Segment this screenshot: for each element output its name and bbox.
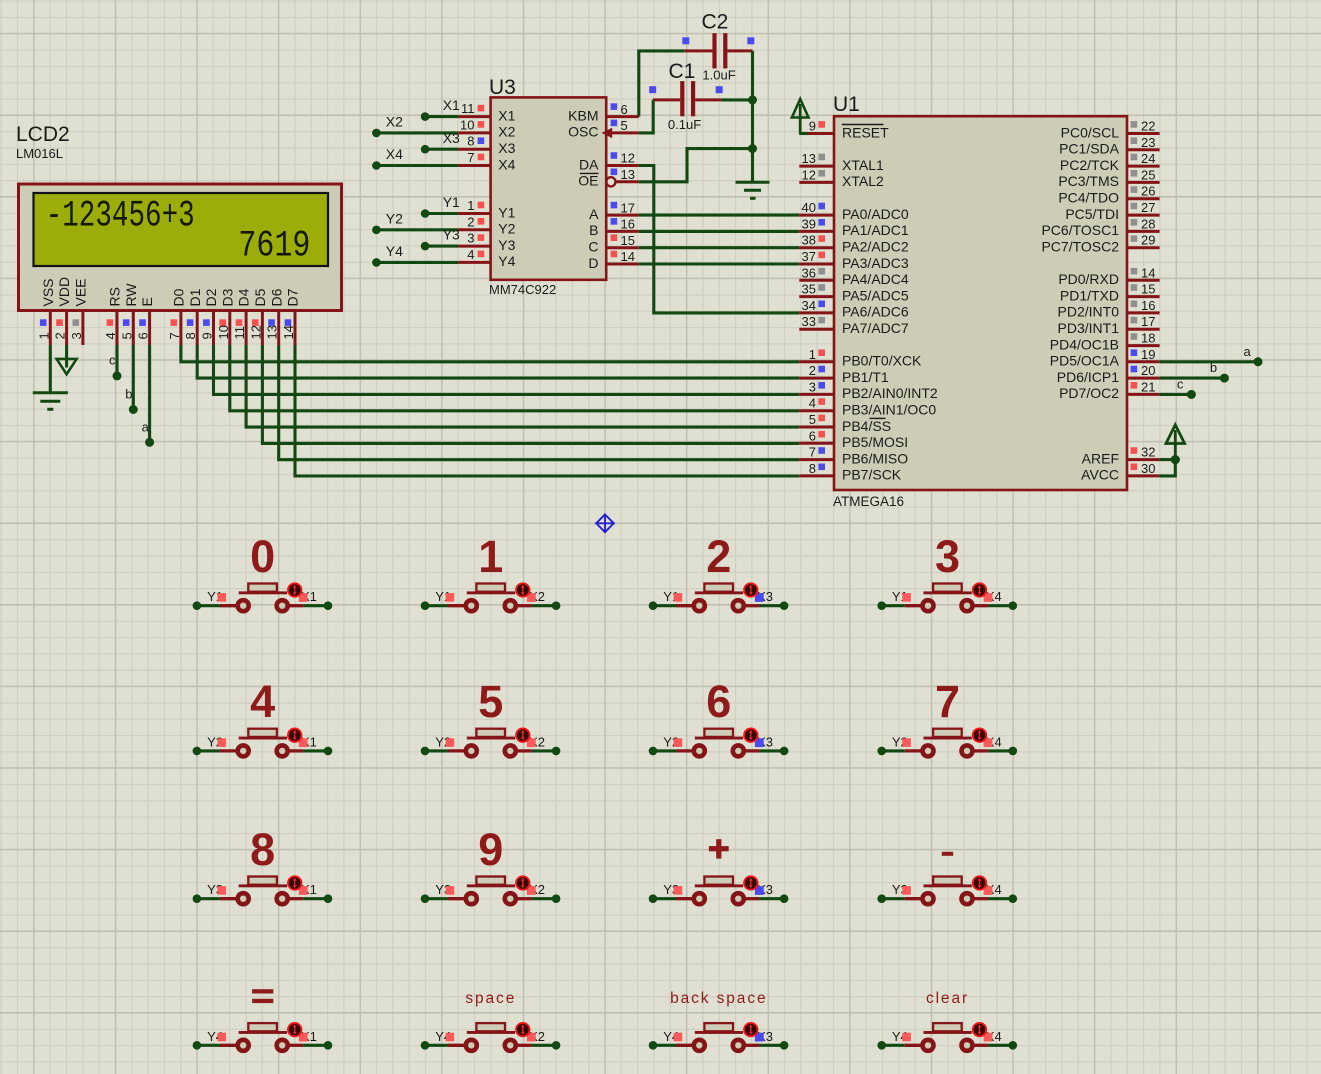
svg-text:33: 33 [802,314,816,329]
net X4 state square [984,593,993,602]
node X3 [780,1041,789,1050]
svg-text:c: c [109,353,116,368]
svg-text:clear: clear [926,990,969,1007]
net X1 state square [299,593,308,602]
button SW7 lever [695,737,743,740]
net Y2 state square [674,738,683,747]
svg-text:13: 13 [621,167,635,182]
svg-text:PD2/INT0: PD2/INT0 [1058,304,1120,320]
svg-text:PA6/ADC6: PA6/ADC6 [842,304,909,320]
svg-text:PD1/TXD: PD1/TXD [1060,287,1119,303]
wire D3 to PB3 [230,345,800,411]
svg-text:PA2/ADC2: PA2/ADC2 [842,239,909,255]
U1 pin 33 (PA7/ADC7) stub [799,328,834,331]
U3 OSC pin arrow [602,128,613,138]
button SW6 left lead [448,749,465,752]
U1 pin 37 state square [818,252,825,259]
U3 pin 17 state square [611,202,618,209]
wire button SW6 to X2 [531,749,556,752]
U3 pin 12 (DA) stub [606,164,639,167]
node X3 [780,747,789,756]
wire D5 to PB5 [262,345,799,443]
net Y4 state square [902,1033,911,1042]
button SW7 left lead [676,749,693,752]
svg-text:21: 21 [1141,379,1155,394]
button SW5 left terminal [238,745,249,756]
node X1 [324,601,333,610]
button SW1 actuator [288,583,301,596]
LCD pin 6 stub [148,311,151,345]
button SW9 lever [239,884,287,887]
U1 pin 36 state square [818,268,825,275]
U1 pin 16 (PD2/INT0) stub [1127,311,1160,314]
svg-text:28: 28 [1141,216,1155,231]
svg-text:PB6/MISO: PB6/MISO [842,450,908,466]
node Y1 [877,601,886,610]
svg-text:8: 8 [250,824,275,875]
U1 pin 6 state square [818,431,825,438]
svg-text:2: 2 [467,214,474,229]
button SW5 cap [248,729,277,737]
U1 pin 1 (PB0/T0/XCK) stub [799,360,834,363]
button SW3 right terminal [733,600,744,611]
svg-text:32: 32 [1141,445,1155,460]
button SW9 actuator [288,876,301,889]
mcu body U1 [834,116,1127,490]
button SW2 right lead [517,604,532,607]
U1 pin 38 state square [818,235,825,242]
net Y4 state square [674,1033,683,1042]
svg-text:X1: X1 [498,107,515,123]
svg-text:9: 9 [809,119,816,134]
svg-text:PD4/OC1B: PD4/OC1B [1050,336,1119,352]
button SW11 right lead [745,897,760,900]
svg-text:11: 11 [461,101,475,116]
U3 pin 10 state square [478,121,485,128]
push button SW11 caption [716,839,721,858]
node c (RS) [113,371,122,380]
U1 pin 17 (PD3/INT1) stub [1127,328,1160,331]
node Y4 [877,1041,886,1050]
LCD pin 4 number [103,332,118,339]
U3 pin 7 state square [478,154,485,161]
net X3 state square [755,886,764,895]
svg-text:30: 30 [1141,461,1155,476]
U3 pin 3 (Y3) stub [458,245,491,248]
capacitor C1 [680,81,684,116]
svg-text:PC5/TDI: PC5/TDI [1065,206,1119,222]
button SW2 cap [476,584,505,592]
svg-text:PA1/ADC1: PA1/ADC1 [842,222,909,238]
U1 pin 39 (PA1/ADC1) stub [799,230,834,233]
U1 pin 22 state square [1131,121,1138,128]
button SW13 actuator [288,1023,301,1036]
net X3 state square [755,1033,764,1042]
svg-text:9: 9 [200,332,215,339]
svg-text:1: 1 [809,347,816,362]
LCD LCD2 body [19,184,342,311]
svg-text:37: 37 [802,249,816,264]
U3 pin 2 state square [478,218,485,225]
node X3 [780,601,789,610]
wire net Y3 [425,245,458,248]
svg-text:D6: D6 [268,288,284,306]
svg-text:Y3: Y3 [443,227,460,243]
svg-text:X3: X3 [443,130,460,146]
svg-text:26: 26 [1141,184,1155,199]
wire Y3 to button SW12 [882,897,905,900]
net X1 state square [299,886,308,895]
U3 pin 11 (X1) stub [458,115,491,118]
button SW14 right terminal [505,1040,516,1051]
svg-text:1.0uF: 1.0uF [702,68,735,83]
svg-text:3: 3 [809,379,816,394]
svg-text:10: 10 [216,325,231,339]
C1 terminal squares [649,86,656,93]
svg-text:PC1/SDA: PC1/SDA [1059,141,1120,157]
U1 pin 5 (PB4/SS) stub [799,426,834,429]
node X4 [372,161,381,170]
button SW7 left terminal [694,745,705,756]
wire OSC to C1 left plate [639,100,653,133]
wire Y2 to button SW6 [425,749,448,752]
svg-text:4: 4 [103,332,118,339]
svg-text:U3: U3 [489,76,516,99]
LCD pin 11 number [232,326,247,340]
button SW8 left lead [905,749,922,752]
U1 pin 3 (PB2/AIN0/INT2) stub [799,393,834,396]
U3 pin 17 (A) stub [606,214,639,217]
wire button SW12 to X4 [988,897,1013,900]
wire D to PA3 [639,262,800,265]
U1 pin 7 (PB6/MISO) stub [799,458,834,461]
wire button SW13 to X1 [303,1044,328,1047]
button SW16 lever [924,1031,972,1034]
U1 pin 14 (PD0/RXD) stub [1127,279,1160,282]
button SW10 actuator [516,876,529,889]
svg-text:7619: 7619 [238,226,310,268]
LCD pin 1 stub [49,311,52,345]
junction C1/C2 [748,95,757,104]
svg-text:5: 5 [809,412,816,427]
LCD pin 14 number [281,325,296,339]
U1 pin 26 state square [1131,186,1138,193]
button SW3 lever [695,591,743,594]
node b (RW) [129,405,138,414]
LCD pin name VDD [56,277,72,307]
button SW16 actuator [973,1023,986,1036]
button SW16 cap [933,1023,962,1031]
svg-text:PD6/ICP1: PD6/ICP1 [1057,369,1119,385]
button SW4 cap [933,584,962,592]
U1 pin 18 state square [1131,333,1138,340]
svg-text:PB5/MOSI: PB5/MOSI [842,434,908,450]
svg-text:PD0/RXD: PD0/RXD [1058,271,1119,287]
LCD pin name VEE [73,278,89,306]
U3 pin 8 state square [478,137,485,144]
LCD pin 6 state square [139,319,146,326]
button SW5 lever [239,737,287,740]
svg-text:2: 2 [809,363,816,378]
button SW12 actuator [973,876,986,889]
LCD pin 4 stub [116,311,119,345]
U3 pin 16 (B) stub [606,230,639,233]
power symbol (RESET pin 9, up arrow) [792,99,809,118]
U3 pin 13 state square [611,169,618,176]
node c [1187,390,1196,399]
button SW3 cap [704,584,733,592]
U1 pin 5 state square [818,415,825,422]
button SW15 left terminal [694,1040,705,1051]
svg-text:1: 1 [478,531,503,582]
node Y3 [649,894,658,903]
button SW10 left lead [448,897,465,900]
button SW12 lever [924,884,972,887]
net Y3 state square [674,886,683,895]
net X4 state square [984,886,993,895]
node b [1220,374,1229,383]
wire D7 to PB7 [295,345,799,476]
wire net Y1 [425,212,458,215]
svg-text:34: 34 [802,298,816,313]
svg-text:4: 4 [809,396,816,411]
node Y1 [649,601,658,610]
svg-text:X1: X1 [443,97,460,113]
svg-text:X2: X2 [498,124,515,140]
U3 pin 1 state square [478,202,485,209]
svg-text:1: 1 [467,198,474,213]
net X4 state square [984,738,993,747]
U1 pin 20 state square [1131,366,1138,373]
button SW2 left lead [448,604,465,607]
button SW11 cap [704,877,733,885]
svg-text:PB1/T1: PB1/T1 [842,369,889,385]
svg-text:C1: C1 [669,60,696,83]
U1 pin 19 (PD5/OC1A) stub [1127,360,1160,363]
node Y2 [421,747,430,756]
svg-text:4: 4 [467,247,474,262]
svg-text:C: C [588,239,598,255]
svg-text:X2: X2 [386,114,403,130]
net Y3 state square [446,886,455,895]
svg-text:PB2/AIN0/INT2: PB2/AIN0/INT2 [842,385,938,401]
wire Y1 to button SW4 [882,604,905,607]
svg-text:OE: OE [578,173,598,189]
svg-text:PB4/SS: PB4/SS [842,418,891,434]
svg-text:X3: X3 [498,140,515,156]
node X4 [1009,747,1018,756]
svg-text:PC4/TDO: PC4/TDO [1058,190,1119,206]
node Y2 [877,747,886,756]
node Y2 [649,747,658,756]
LCD pin 13 stub [277,311,280,345]
wire PD6 to node b [1160,377,1225,380]
svg-text:12: 12 [802,167,816,182]
button SW6 cap [476,729,505,737]
button SW1 lever [239,591,287,594]
U3 pin 1 (Y1) stub [458,212,491,215]
node Y2 [372,226,381,235]
svg-text:ATMEGA16: ATMEGA16 [833,494,904,509]
U1 pin 35 state square [818,284,825,291]
U3 pin 12 state square [611,152,618,159]
LCD pin 10 state square [219,319,226,326]
svg-text:VEE: VEE [73,278,89,306]
wire C to PA2 [639,246,800,249]
svg-text:D5: D5 [252,288,268,306]
U1 pin 15 (PD1/TXD) stub [1127,295,1160,298]
button SW5 actuator [288,729,301,742]
svg-text:PA4/ADC4: PA4/ADC4 [842,271,909,287]
svg-text:4: 4 [250,676,275,727]
node X3 [421,145,430,154]
U1 pin 12 state square [818,170,825,177]
svg-text:PB0/T0/XCK: PB0/T0/XCK [842,353,922,369]
button SW10 right terminal [505,893,516,904]
svg-text:6: 6 [621,102,628,117]
button SW13 cap [248,1023,277,1031]
LCD pin 14 stub [294,311,297,345]
wire D0 to PB0 [181,345,799,362]
net Y2 state square [446,738,455,747]
U1 pin 27 (PC5/TDI) stub [1127,214,1160,217]
wire AREF to power net [1160,458,1176,461]
node Y3 [421,242,430,251]
net Y2 state square [218,738,227,747]
svg-text:b: b [1210,360,1217,375]
U3 pin 5 state square [611,120,618,127]
U1 pin 18 (PD4/OC1B) stub [1127,344,1160,347]
U1 pin 22 (PC0/SCL) stub [1127,132,1160,135]
svg-text:8: 8 [809,461,816,476]
U1 pin 7 state square [818,447,825,454]
U1 pin 20 (PD6/ICP1) stub [1127,377,1160,380]
node X2 [372,129,381,138]
svg-text:VSS: VSS [40,278,56,306]
U3 pin 11 state square [478,105,485,112]
net X4 state square [984,1033,993,1042]
wire button SW4 to X4 [988,604,1013,607]
push button SW12 caption [942,852,953,856]
LCD pin 8 stub [196,311,199,345]
button SW15 lever [695,1031,743,1034]
LCD pin name D5 [252,288,268,306]
U1 pin 13 state square [818,154,825,161]
LCD pin 3 stub [81,311,84,345]
svg-text:D3: D3 [219,288,235,306]
wire Y1 to button SW1 [197,604,220,607]
button SW12 left terminal [923,893,934,904]
U3 pin 3 state square [478,234,485,241]
LCD pin 6 number [136,332,151,339]
U1 pin 2 (PB1/T1) stub [799,377,834,380]
LCD pin 9 number [200,332,215,339]
button SW10 lever [467,884,515,887]
svg-text:13: 13 [265,325,280,339]
net Y1 state square [674,593,683,602]
button SW1 left lead [220,604,237,607]
capacitor C2 [712,33,716,68]
node X2 [552,894,561,903]
LCD pin 5 number [119,332,134,339]
wire button SW1 to X1 [303,604,328,607]
button SW13 left lead [220,1044,237,1047]
svg-text:XTAL2: XTAL2 [842,173,884,189]
button SW11 left lead [676,897,693,900]
wire OE to ground net [639,149,753,182]
button SW16 right lead [974,1044,989,1047]
svg-text:0.1uF: 0.1uF [668,117,701,132]
svg-text:8: 8 [467,134,474,149]
svg-text:17: 17 [621,200,635,215]
button SW16 right terminal [962,1040,973,1051]
wire button SW14 to X2 [531,1044,556,1047]
wire C2 right plate down to ground net [751,51,754,182]
button SW3 left terminal [694,600,705,611]
button SW15 right terminal [733,1040,744,1051]
U1 pin 9 (RESET) stub [799,132,834,135]
button SW3 right lead [745,604,760,607]
wire Y4 to button SW13 [197,1044,220,1047]
net X1 state square [299,1033,308,1042]
net X2 state square [527,1033,536,1042]
svg-text:22: 22 [1141,119,1155,134]
svg-text:PC2/TCK: PC2/TCK [1060,157,1120,173]
node a [1254,357,1263,366]
svg-text:PA5/ADC5: PA5/ADC5 [842,287,909,303]
junction OE net [748,144,757,153]
svg-text:D1: D1 [187,288,203,306]
wire D6 to PB6 [279,345,800,460]
button SW15 actuator [744,1023,757,1036]
U3 pin 10 (X2) stub [458,131,491,134]
svg-text:20: 20 [1141,363,1155,378]
svg-text:35: 35 [802,282,816,297]
wire Y2 to button SW5 [197,749,220,752]
LCD pin name RW [123,283,139,307]
U1 pin 17 state square [1131,317,1138,324]
svg-text:9: 9 [478,824,503,875]
svg-text:D2: D2 [203,288,219,306]
U1 pin 25 state square [1131,170,1138,177]
svg-text:16: 16 [621,217,635,232]
U1 pin 15 state square [1131,284,1138,291]
button SW4 actuator [973,583,986,596]
button SW13 left terminal [238,1040,249,1051]
svg-text:3: 3 [69,332,84,339]
U3 pin 14 (D) stub [606,263,639,266]
U1 pin 35 (PA5/ADC5) stub [799,295,834,298]
svg-text:B: B [589,222,598,238]
svg-text:PC7/TOSC2: PC7/TOSC2 [1041,239,1119,255]
net Y3 state square [902,886,911,895]
svg-text:Y4: Y4 [498,253,515,269]
U1 pin 8 state square [818,464,825,471]
wire net X4 [376,164,458,167]
U1 pin 30 (AVCC) stub [1127,474,1160,477]
U3 pin 14 state square [611,251,618,258]
U3 pin 8 (X3) stub [458,148,491,151]
node Y1 [193,601,202,610]
node X4 [1009,1041,1018,1050]
node X4 [1009,601,1018,610]
U1 pin 2 state square [818,366,825,373]
svg-text:0: 0 [250,531,275,582]
svg-text:Y2: Y2 [386,210,403,226]
wire button SW16 to X4 [988,1044,1013,1047]
button SW5 right lead [289,749,304,752]
svg-text:17: 17 [1141,314,1155,329]
